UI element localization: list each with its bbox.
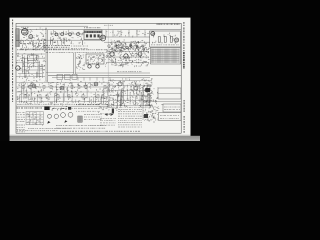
header model title text: [104, 24, 180, 25]
tube V1 triode section: [29, 35, 33, 39]
legend divider: [16, 105, 110, 107]
right margin rotated text (folder date): [183, 22, 185, 133]
power transformer T5: [143, 86, 181, 120]
tone cap C20: [77, 55, 85, 70]
speaker SP1: [175, 38, 179, 42]
IF transformer T4: [86, 54, 104, 68]
schematic border frame: [16, 23, 181, 133]
tube base diagram 35W4: [61, 112, 73, 123]
tube chart table: [26, 112, 43, 126]
alignment notes rows: [56, 126, 106, 129]
wire stage drops: [50, 30, 84, 45]
bus labels row: [17, 50, 107, 53]
IF stage cluster C10-R12: [108, 40, 125, 52]
tube V7 output: [94, 82, 98, 86]
wire IF plate line: [100, 30, 150, 42]
scanner gray strip below page: [10, 136, 201, 141]
lower-left component speckle: [17, 80, 110, 106]
wire AVC line: [16, 39, 100, 41]
lower-right component speckle: [100, 78, 153, 108]
dial assembly drawing: [151, 48, 181, 65]
volume control R15: [139, 40, 147, 50]
tube V6 audio: [60, 86, 64, 90]
loop antenna L1: [16, 29, 19, 47]
wire shielded pair: [46, 28, 75, 82]
footer text row: [17, 128, 140, 131]
second IF cluster: [105, 48, 150, 68]
page bottom edge shadow: [10, 134, 191, 136]
tube V5 det/avc: [32, 84, 36, 88]
output transformer T6: [99, 103, 122, 114]
tube V1 converter: [21, 27, 28, 35]
oscillator coil T1: [55, 33, 80, 36]
legend heading text: [17, 107, 102, 111]
page fold line: [107, 24, 109, 105]
left margin rotated text: [12, 20, 14, 103]
tube base diagram 50C5: [47, 121, 50, 124]
wire top bus: [16, 25, 88, 27]
dial cord diagram box: [143, 102, 181, 113]
component labels row: [44, 32, 88, 49]
output box labels: [151, 33, 179, 45]
tube base diagram 12BE6: [48, 114, 59, 118]
left control block wires: [16, 53, 46, 81]
parts list left column: [17, 113, 26, 132]
audio coupling cluster: [130, 41, 144, 51]
page (scanned schematic sheet): [10, 18, 191, 136]
detector cluster: [124, 43, 132, 51]
power section cluster: [143, 112, 181, 123]
RF components cluster R1-C4: [20, 28, 47, 52]
wire B+ line: [20, 29, 181, 31]
parts columns: [100, 119, 142, 128]
lower right circuit wires: [108, 81, 152, 107]
band switch S1: [16, 55, 37, 70]
output stage box: [150, 31, 181, 47]
output tubes V3 V4: [158, 37, 172, 43]
stringing arrows marks: [105, 113, 114, 116]
tube V2 IF amp: [100, 35, 106, 41]
tuner assembly T2 (gang capacitor): [84, 28, 102, 40]
output transformer T3: [151, 32, 155, 36]
pilot lamp: [145, 88, 149, 92]
lower left circuit wires: [17, 81, 111, 103]
terminal strip bus: [48, 72, 181, 81]
alignment notes text: [76, 105, 102, 120]
filter choke L2: [134, 86, 138, 90]
parts list symbol (transformer): [78, 116, 82, 122]
rectifier V8: [118, 82, 122, 86]
notes text block: [118, 110, 142, 119]
